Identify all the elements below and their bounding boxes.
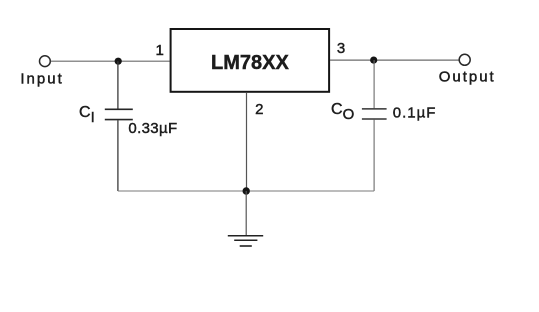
svg-text:1: 1 xyxy=(155,42,163,59)
node: ground junction xyxy=(243,187,250,194)
wire: input to pin 1 xyxy=(51,60,170,62)
regulator U1 LM78XX xyxy=(171,29,330,92)
CI bottom plate xyxy=(105,119,133,121)
capacitor C2 (CO) xyxy=(362,60,387,191)
CO top plate xyxy=(362,108,387,110)
svg-text:3: 3 xyxy=(337,40,345,57)
svg-text:2: 2 xyxy=(255,101,263,118)
svg-text:0.33µF: 0.33µF xyxy=(128,120,177,137)
node: input / CI junction xyxy=(115,58,122,65)
svg-text:LM78XX: LM78XX xyxy=(211,52,289,74)
CO bottom plate xyxy=(362,118,387,120)
ground xyxy=(228,236,263,246)
wire: ground bus xyxy=(118,190,374,192)
wire: ground stem xyxy=(245,191,247,235)
wire: pin 2 to ground bus xyxy=(246,93,248,191)
svg-text:Input: Input xyxy=(20,70,63,87)
wire: CI bottom lead xyxy=(117,120,119,191)
wire: CO bottom lead xyxy=(373,120,375,191)
wire: CO top lead xyxy=(373,60,375,108)
node: output / CO junction xyxy=(370,57,377,64)
CI top plate xyxy=(105,108,133,110)
output terminal xyxy=(459,54,470,65)
svg-text:0.1µF: 0.1µF xyxy=(393,105,437,122)
wire: CI top lead xyxy=(117,61,119,108)
wire: pin 3 to output xyxy=(330,59,459,61)
input terminal xyxy=(40,56,51,67)
capacitor C1 (CI) xyxy=(105,61,133,191)
svg-text:Output: Output xyxy=(439,68,496,85)
